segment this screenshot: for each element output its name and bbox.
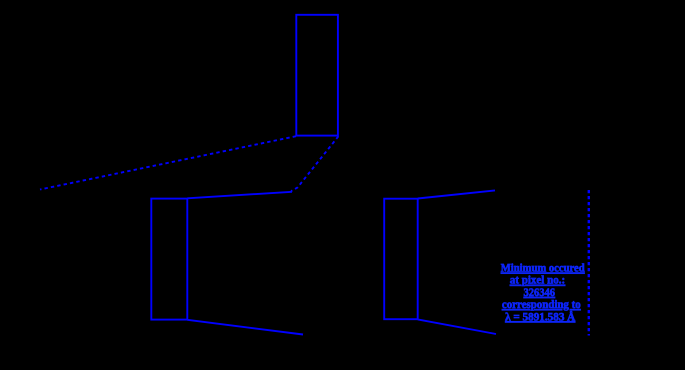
lower-left panel: upper continuum line [187,192,292,199]
zoom guide dashed line (right, bends to panel continuum) [291,136,338,191]
lower-left panel: lower spectrum line [187,320,303,335]
top spectrum: saturated absorption-line box [296,15,338,136]
zoom guide dashed line (left) [40,136,296,189]
lower-right panel: upper continuum line [418,190,495,198]
dashed marker line at minimum pixel [588,190,590,336]
lower-left zoomed panel: line-core box [151,199,187,320]
svg-text:λ = 5891.583 Å: λ = 5891.583 Å [505,309,576,323]
lower-right zoomed panel: line-core box [384,199,418,320]
lower-right panel: lower spectrum line [418,319,496,334]
